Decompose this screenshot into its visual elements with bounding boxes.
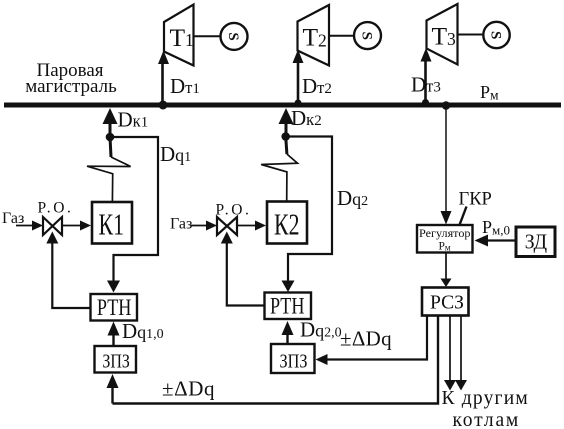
svg-text:Р.О.: Р.О. — [38, 200, 74, 217]
steam main (Паровая магистраль) thick bus line — [4, 103, 561, 108]
wire long feedback РСЗ to ЗПЗ1 — [113, 316, 439, 404]
arrow ЗД to Регулятор — [488, 239, 516, 241]
arrow valve1 to K1 — [62, 225, 83, 227]
svg-text:К1: К1 — [99, 207, 125, 242]
label Dт2 — [302, 74, 332, 98]
node: junction dot T1 on main — [159, 101, 168, 110]
svg-text:Dк1: Dк1 — [118, 108, 149, 132]
svg-text:магистраль: магистраль — [25, 76, 117, 97]
arrowhead into T2 — [293, 50, 304, 64]
setpoint ЗПЗ2 box — [271, 344, 315, 373]
svg-text:±ΔDq: ±ΔDq — [162, 377, 215, 401]
label ±ΔDq left — [162, 377, 215, 401]
svg-text:S: S — [359, 32, 375, 40]
node: junction dot T2 on main — [295, 100, 302, 107]
turbine T1 — [164, 5, 194, 66]
regulator РТН1 box — [91, 294, 138, 321]
setpoint ЗПЗ1 box — [95, 346, 137, 373]
svg-text:±ΔDq: ±ΔDq — [340, 327, 392, 351]
label Газ (fuel) K2 — [170, 216, 192, 233]
zigzag break symbol boiler K2 steam lead — [286, 137, 287, 155]
label Dк1 — [118, 108, 149, 132]
wire РСЗ output to other boilers 1 — [449, 316, 451, 382]
svg-text:Dт3: Dт3 — [411, 73, 441, 97]
node: junction dot K1 branch — [106, 133, 115, 142]
node: junction dot ГКР on main — [442, 101, 451, 110]
svg-text:К2: К2 — [274, 207, 300, 242]
boiler K1 box — [92, 202, 132, 244]
regulator РТН2 box — [265, 293, 312, 320]
svg-text:Р.О.: Р.О. — [216, 202, 252, 219]
label Dq2,0 — [300, 318, 342, 342]
boiler K2 box — [267, 202, 307, 244]
svg-text:РТН: РТН — [270, 293, 305, 318]
arrow Dк1 from boiler K1 into main — [103, 108, 118, 124]
label ±ΔDq right — [340, 327, 392, 351]
svg-text:котлам: котлам — [453, 410, 521, 429]
arrow Dк2 from boiler K2 into main — [279, 108, 294, 124]
turbine T3 — [427, 4, 458, 65]
generator G2 — [354, 22, 381, 49]
svg-text:Dq2,0: Dq2,0 — [300, 318, 342, 342]
svg-text:Т: Т — [432, 22, 448, 51]
wire: riser from main to turbine T1 — [161, 62, 164, 105]
distributor РСЗ box — [422, 288, 469, 316]
arrow Газ to valve2 — [191, 225, 210, 227]
svg-text:Dq1: Dq1 — [160, 142, 191, 166]
svg-text:РСЗ: РСЗ — [430, 291, 464, 313]
shaft T1-generator — [194, 35, 221, 37]
zigzag break symbol boiler K1 steam lead — [110, 137, 111, 157]
wire РСЗ output to other boilers 2 — [460, 316, 462, 382]
shaft T3-generator — [458, 34, 484, 36]
label Dт1 — [170, 74, 200, 98]
svg-text:Dq1,0: Dq1,0 — [122, 319, 164, 343]
arrow Газ to valve1 — [16, 225, 36, 227]
label Dq1,0 — [122, 319, 164, 343]
svg-text:Dт1: Dт1 — [170, 74, 200, 98]
svg-text:2: 2 — [318, 31, 327, 51]
svg-text:Dк2: Dк2 — [291, 106, 322, 130]
wire Dq2: junction to РТН2 (elbow path) — [286, 137, 332, 284]
svg-text:РТН: РТН — [97, 295, 131, 320]
wire Dq1: junction to РТН1 (elbow path) — [110, 137, 158, 283]
regulator Регулятор Рм box — [417, 225, 473, 253]
valve Р.О.2 (control valve bowtie) — [217, 217, 227, 235]
svg-text:Газ: Газ — [2, 210, 24, 227]
wire РТН2 to valve2 (feedback) with arrow up — [227, 241, 265, 306]
wire: riser from main to turbine T3 — [424, 60, 427, 105]
generator G3 — [483, 22, 509, 48]
arrowhead into РТН2 top — [282, 281, 295, 293]
shaft T2-generator — [329, 35, 355, 37]
svg-text:Регулятор: Регулятор — [419, 226, 471, 240]
svg-text:ЗПЗ: ЗПЗ — [102, 351, 129, 373]
label Рм,0 — [482, 217, 510, 238]
svg-text:ЗПЗ: ЗПЗ — [280, 351, 308, 373]
arrowhead into РТН1 top — [107, 281, 120, 293]
node: junction dot K2 branch — [281, 132, 290, 141]
label Dт3 — [411, 73, 441, 97]
valve Р.О.1 (control valve bowtie) — [43, 217, 53, 235]
svg-text:ЗД: ЗД — [525, 230, 547, 254]
arrow РСЗ to ЗПЗ2 (±ΔDq) — [324, 316, 427, 360]
svg-text:Газ: Газ — [170, 216, 192, 233]
arrow feedback into ЗПЗ1 — [111, 386, 113, 404]
svg-text:Рм: Рм — [438, 241, 450, 253]
svg-text:Т: Т — [303, 23, 319, 52]
label Рм on main — [480, 82, 499, 103]
svg-text:Рм,0: Рм,0 — [482, 217, 510, 238]
svg-text:Dт2: Dт2 — [302, 74, 332, 98]
svg-text:К другим: К другим — [442, 388, 529, 409]
label Р.О. 2 — [216, 202, 252, 219]
svg-text:Dq2: Dq2 — [337, 186, 368, 210]
label Газ (fuel) K1 — [2, 210, 24, 227]
svg-text:ГКР: ГКР — [459, 190, 492, 210]
label ГКР with pointer — [459, 190, 492, 210]
arrow Регулятор to РСЗ — [445, 253, 447, 281]
svg-text:3: 3 — [447, 29, 456, 49]
svg-text:S: S — [488, 31, 504, 39]
svg-text:Т: Т — [170, 23, 186, 52]
svg-text:S: S — [225, 32, 241, 40]
arrow valve2 to K2 — [237, 225, 258, 227]
label Dq2 — [337, 186, 368, 210]
arrow ЗПЗ2 to РТН2 — [286, 333, 288, 343]
setpoint ЗД box — [516, 227, 555, 257]
label Dк2 — [291, 106, 322, 130]
svg-text:Рм: Рм — [480, 82, 499, 103]
svg-text:1: 1 — [185, 30, 194, 50]
label К другим котлам — [442, 388, 529, 429]
label Р.О. 1 — [38, 200, 74, 217]
label Dq1 — [160, 142, 191, 166]
generator G1 — [221, 23, 248, 50]
arrowhead into T3 — [421, 48, 432, 62]
turbine T2 — [298, 5, 330, 66]
arrowhead into T1 — [158, 51, 169, 65]
label "Паровая магистраль" — [25, 60, 117, 97]
arrow ЗПЗ1 to РТН1 — [112, 334, 114, 345]
wire РТН1 to valve1 (feedback) with arrow up — [52, 241, 90, 308]
wire main to Регулятор Рм — [445, 106, 447, 213]
node: junction dot T3 on main — [422, 99, 429, 106]
wire: riser from main to turbine T2 — [297, 61, 300, 105]
